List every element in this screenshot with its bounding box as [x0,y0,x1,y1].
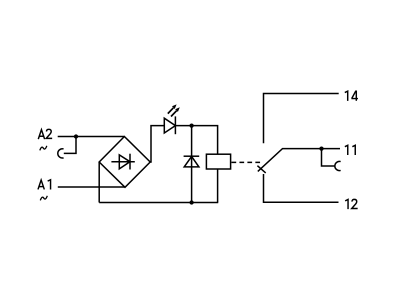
wire LED to relay coil [175,126,218,155]
terminal label 12 [345,199,358,209]
bridge diode symbol [111,154,134,170]
terminal label A2 [38,129,52,139]
junction at freewheeling diode top [189,123,193,127]
wire 11 junction to socket contact [322,149,336,166]
freewheeling diode D2 [184,156,200,167]
wire relay coil to bottom rail [217,169,219,203]
contact arm (pole 11) [258,149,340,172]
LED light emission arrows [168,104,180,116]
socket contact at 11 [335,161,341,170]
terminal label 14 [345,91,358,101]
terminal 14 wire [264,94,339,144]
socket contact at A2 [58,149,64,158]
wire A2 to bridge top vertex [58,136,125,138]
bridge rectifier B1 [99,137,150,188]
terminal label A1 [38,180,51,190]
wire bridge right vertex up to LED row [150,126,164,162]
terminal label 11 [345,145,355,155]
junction on wire 11 [319,146,323,150]
NC contact tick [257,166,265,173]
bottom rail wire [99,202,218,204]
junction at freewheeling diode bottom [189,200,193,204]
junction on A2 wire [74,134,78,138]
relay coil K1 [206,154,230,169]
wire junction down to socket contact [64,137,76,154]
mechanical link dashed line [232,161,261,163]
freewheeling diode branch wire [191,126,193,203]
AC symbol under A2 [40,146,47,151]
wire A1 to bridge bottom vertex [58,186,125,188]
AC symbol under A1 [40,196,47,201]
wire bridge left vertex down to bottom rail [98,162,100,203]
LED D1 [164,116,175,134]
terminal 12 wire [264,174,339,202]
